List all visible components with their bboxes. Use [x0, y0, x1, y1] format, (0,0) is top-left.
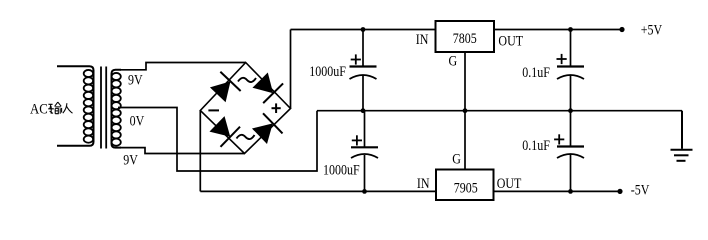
- svg-text:7905: 7905: [454, 179, 478, 196]
- svg-text:0.1uF: 0.1uF: [522, 64, 550, 81]
- regulator U2 7905: [436, 170, 494, 201]
- capacitor C1 1000uF (top): [350, 27, 377, 113]
- svg-text:1000uF: 1000uF: [309, 63, 346, 80]
- wire: secondary bottom 9V tap to bridge bottom corner: [120, 148, 245, 154]
- 输 glyph strokes: [48, 104, 54, 113]
- svg-text:OUT: OUT: [497, 175, 522, 192]
- svg-text:0V: 0V: [130, 112, 145, 129]
- svg-text:IN: IN: [417, 175, 430, 192]
- ground symbol: [671, 111, 693, 161]
- capacitor C3 1000uF (bottom): [351, 111, 378, 194]
- svg-text:AC: AC: [30, 102, 48, 118]
- capacitor C4 0.1uF (bottom): [554, 111, 584, 194]
- terminal dot -5V: [617, 189, 622, 194]
- diode D1c (bottom-left, - to bottom AC): [207, 114, 240, 147]
- bridge rectifier D1 diamond: [200, 63, 290, 154]
- junction C3 / -V rail: [362, 189, 367, 194]
- wire: +V top rail to +5V terminal: [291, 29, 623, 31]
- regulator U1 7805: [436, 21, 495, 52]
- svg-text:7805: 7805: [453, 30, 477, 47]
- bridge AC mark top (~): [238, 78, 256, 82]
- label AC输入: [30, 102, 73, 118]
- svg-text:-5V: -5V: [631, 181, 650, 198]
- capacitor C2 0.1uF (top): [557, 27, 585, 113]
- junction C2 / +V rail: [568, 27, 573, 32]
- svg-text:IN: IN: [416, 31, 429, 48]
- junction C1 / ground rail: [361, 108, 366, 113]
- transformer T1 primary winding: [57, 66, 94, 145]
- bridge AC mark bottom (~): [237, 135, 255, 139]
- wire: secondary top 9V tap to bridge top corner: [120, 63, 246, 70]
- transformer T1 secondary winding: [112, 70, 122, 148]
- 入 glyph strokes: [63, 103, 73, 113]
- wire: ground mid rail: [317, 110, 682, 112]
- bridge plus mark: [272, 103, 281, 113]
- svg-text:G: G: [449, 52, 458, 69]
- transformer T1 core: [101, 67, 106, 149]
- wire: bridge + corner up to +V rail: [290, 30, 292, 109]
- junction C2 / ground rail: [568, 108, 573, 113]
- wire: -V bottom rail to -5V terminal: [200, 190, 620, 192]
- diode D1b (top-right, top AC to +): [250, 70, 283, 103]
- svg-text:+5V: +5V: [641, 21, 663, 38]
- svg-text:1000uF: 1000uF: [323, 161, 360, 178]
- junction C1 / +V rail: [361, 27, 366, 32]
- diode D1d (bottom-right, bottom AC to +): [250, 113, 283, 146]
- svg-text:0.1uF: 0.1uF: [522, 137, 550, 154]
- diode D1a (top-left, anode at -, cathode to top AC): [208, 72, 241, 105]
- bridge minus mark: [208, 109, 219, 111]
- wire: G net vertical (7805 G to mid rail to 7905 G): [464, 52, 466, 170]
- terminal dot +5V: [619, 27, 624, 32]
- svg-text:OUT: OUT: [498, 32, 523, 49]
- svg-text:9V: 9V: [123, 151, 138, 168]
- svg-text:9V: 9V: [128, 71, 143, 88]
- junction dot G net on mid rail: [463, 108, 468, 113]
- wire: bridge - corner down to -V rail: [199, 111, 201, 192]
- wire: secondary center 0V tap down and under bridge to mid rail: [118, 108, 317, 172]
- svg-text:G: G: [452, 150, 461, 167]
- junction C4 / -V rail: [568, 189, 573, 194]
